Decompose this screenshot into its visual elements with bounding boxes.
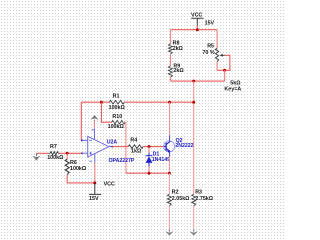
junction R7/R6 bbox=[66, 152, 69, 155]
wire op-amp bottom supply bbox=[94, 163, 96, 183]
junction collector tap bbox=[168, 101, 171, 104]
wire pot bottom lead bbox=[216, 62, 218, 70]
svg-text:R10: R10 bbox=[112, 114, 122, 120]
power symbol VCC top 15V bbox=[191, 13, 215, 30]
resistor R2 bbox=[167, 190, 190, 206]
resistor R1 bbox=[109, 94, 126, 112]
wire top rail bbox=[170, 29, 217, 31]
transistor Q2 2N2222 bbox=[164, 135, 194, 157]
wire left branch upper bbox=[169, 30, 171, 44]
svg-text:100kΩ: 100kΩ bbox=[47, 155, 64, 161]
svg-text:2kΩ: 2kΩ bbox=[173, 68, 184, 74]
wire emitter node down to R2 bbox=[168, 173, 170, 194]
wire R1 row right bbox=[124, 101, 193, 103]
wire D1 bottom lead bbox=[148, 166, 150, 173]
wire R7 to op-amp bbox=[60, 152, 81, 154]
wire pot wiper loop bbox=[217, 55, 230, 70]
wire node A to R10 bbox=[101, 102, 111, 122]
wire input to R7 bbox=[37, 152, 49, 154]
svg-text:70 %: 70 % bbox=[202, 50, 214, 56]
wire R3 to ground bbox=[193, 206, 195, 229]
wire op-amp top supply bbox=[93, 121, 95, 128]
junction node B top bbox=[192, 80, 195, 83]
wire emitter down bbox=[168, 157, 170, 173]
wire bottom rail bbox=[126, 172, 169, 174]
junction node A bbox=[100, 101, 103, 104]
resistor R10 bbox=[108, 114, 126, 130]
wire pot drop to divider rail bbox=[224, 70, 226, 81]
svg-text:Key=A: Key=A bbox=[224, 86, 241, 92]
svg-text:100kΩ: 100kΩ bbox=[70, 166, 87, 172]
junction D1 top bbox=[148, 145, 151, 148]
wire R4 to base junction bbox=[143, 146, 164, 148]
junction emitter / bottom rail bbox=[168, 172, 171, 175]
svg-text:100kΩ: 100kΩ bbox=[108, 124, 125, 130]
wire node B down to R3 bbox=[193, 81, 195, 194]
svg-text:VCC: VCC bbox=[191, 13, 202, 19]
input connector arrow bbox=[33, 153, 41, 160]
svg-text:15V: 15V bbox=[205, 21, 215, 27]
svg-text:R3: R3 bbox=[195, 190, 202, 196]
resistor R3 bbox=[192, 190, 214, 206]
wire D1 top lead bbox=[148, 147, 150, 153]
diode D1 1N4149 bbox=[146, 151, 170, 166]
wire R6 bottom to VCC row bbox=[67, 175, 95, 183]
junction at VCC stem bbox=[196, 28, 199, 31]
wire R6 top lead bbox=[66, 153, 68, 159]
svg-text:OPA2227P: OPA2227P bbox=[109, 158, 135, 164]
potentiometer R5 70% 5k Key=A bbox=[202, 44, 241, 93]
wire R2 to ground bbox=[168, 206, 170, 229]
resistor R6 bbox=[65, 159, 87, 175]
resistor R7 bbox=[47, 144, 64, 161]
wire below R9 bbox=[169, 77, 171, 81]
wire R10 right drop to bottom rail bbox=[125, 122, 126, 173]
ground arrow right bbox=[193, 229, 195, 232]
svg-text:R4: R4 bbox=[130, 137, 137, 143]
wire node A drop to op-amp bbox=[80, 102, 82, 140]
junction node B mid bbox=[192, 101, 195, 104]
svg-text:VCC: VCC bbox=[104, 182, 115, 188]
resistor R8 bbox=[168, 40, 183, 54]
svg-text:1N4149: 1N4149 bbox=[152, 157, 170, 163]
svg-text:2.05kΩ: 2.05kΩ bbox=[172, 196, 190, 202]
junction VCC bottom bbox=[93, 181, 96, 184]
svg-text:R1: R1 bbox=[113, 94, 120, 100]
wire collector from R1 row bbox=[169, 102, 171, 135]
svg-text:2N2222: 2N2222 bbox=[175, 143, 193, 149]
VCC arrow above op-amp bbox=[91, 115, 99, 121]
power symbol VCC bottom 15V bbox=[89, 182, 115, 202]
ground arrow left bbox=[168, 229, 170, 232]
junction pot loop bbox=[223, 69, 226, 72]
wire right branch upper bbox=[216, 30, 218, 48]
svg-text:1kΩ: 1kΩ bbox=[131, 148, 142, 154]
svg-text:2kΩ: 2kΩ bbox=[173, 46, 184, 52]
svg-text:R2: R2 bbox=[172, 190, 179, 196]
svg-text:2.75kΩ: 2.75kΩ bbox=[195, 196, 213, 202]
wire op-amp output to R4 bbox=[112, 146, 128, 148]
svg-text:R7: R7 bbox=[50, 144, 57, 150]
wire divider bottom rail bbox=[170, 80, 224, 82]
wire R1 row left bbox=[81, 101, 109, 103]
resistor R9 bbox=[168, 63, 184, 77]
junction D1 bottom bbox=[148, 172, 151, 175]
svg-text:100kΩ: 100kΩ bbox=[109, 105, 126, 111]
wire between R8 and R9 bbox=[169, 54, 171, 66]
resistor R4 bbox=[128, 137, 143, 154]
svg-text:U2A: U2A bbox=[107, 139, 118, 145]
svg-text:15V: 15V bbox=[89, 196, 99, 202]
svg-text:R5: R5 bbox=[207, 44, 214, 50]
op-amp U2A OPA2227P bbox=[81, 129, 135, 165]
